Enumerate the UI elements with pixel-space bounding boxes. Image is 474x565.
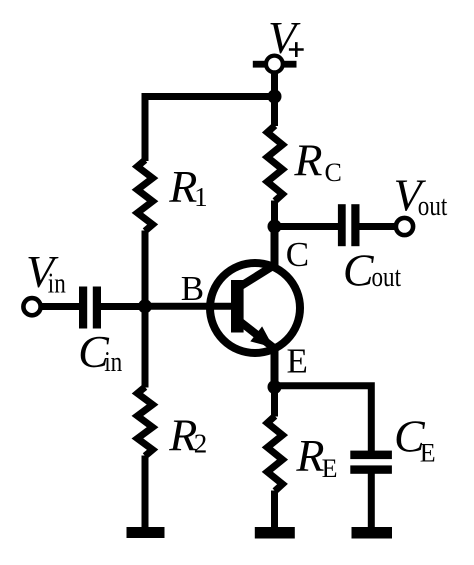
terminal Vin [23,298,40,315]
wire emitter node down to RE [271,385,278,417]
svg-text:R: R [295,430,324,481]
label RE [295,430,337,483]
capacitor Cout left plate [338,204,346,246]
label Vin [26,246,66,300]
transistor Q1 collector lead [240,227,275,287]
wire R2 bottom to ground [142,456,149,529]
svg-text:E: E [322,454,338,483]
resistor R2 [137,387,152,456]
wire supply junction down to RC [271,97,278,127]
resistor RE [267,416,282,491]
wire base node to transistor base [145,303,232,310]
label CE [394,411,436,468]
transistor Q1 emitter lead [240,322,275,388]
svg-text:in: in [104,347,122,378]
label V+ [268,12,304,63]
V+ right tick [284,61,297,68]
wire CE bottom plate to ground [368,474,375,529]
svg-text:R: R [168,161,197,212]
label Cout [343,244,401,295]
label Cin [78,326,122,378]
label R2 [168,409,207,460]
transistor Q1 emitter arrow [250,326,273,347]
wire emitter node to CE branch [275,386,372,451]
wire RE bottom to ground [271,491,278,529]
junction supply node [268,90,282,104]
wire V+ terminal to supply junction [271,73,278,97]
svg-text:C: C [343,244,375,295]
svg-text:R: R [293,135,322,186]
terminal Vout [396,218,413,235]
svg-text:out: out [372,262,402,293]
capacitor Cin right plate [93,287,101,329]
label Vout [394,170,448,222]
wire RC bottom through collector node to transistor collector [271,201,278,265]
capacitor Cout right plate [351,204,359,246]
svg-text:B: B [181,269,204,308]
junction base node [138,299,152,313]
capacitor CE bottom plate [350,465,392,473]
transistor Q1 circle [210,263,300,353]
wire Vin terminal to Cin left plate [41,303,80,310]
svg-text:1: 1 [194,182,208,212]
wire top rail and left rail down to R1 [145,97,275,162]
wire R1 bottom through base node down to R2 [142,231,149,388]
svg-text:out: out [418,191,448,222]
ground for RE [255,527,295,539]
terminal V+ [266,56,283,73]
junction emitter node [268,380,282,394]
label RC [293,135,341,188]
wire Cin right plate to base node [101,303,146,310]
svg-text:2: 2 [194,429,208,459]
wire collector node to Cout left plate [275,223,339,230]
svg-text:C: C [325,158,342,187]
resistor RC [267,126,282,202]
ground for CE [352,527,393,539]
transistor Q1 base bar [231,280,244,333]
svg-text:E: E [420,439,436,468]
svg-text:in: in [48,269,66,300]
V+ left tick [253,61,266,68]
junction collector node [268,220,282,234]
wire Cout right plate to Vout terminal [359,223,395,230]
resistor R1 [137,160,152,231]
svg-text:E: E [287,342,308,381]
capacitor Cin left plate [79,287,87,329]
capacitor CE top plate [350,451,392,460]
svg-text:C: C [286,235,309,274]
ground for R2 [127,527,165,538]
label R1 [168,161,207,212]
